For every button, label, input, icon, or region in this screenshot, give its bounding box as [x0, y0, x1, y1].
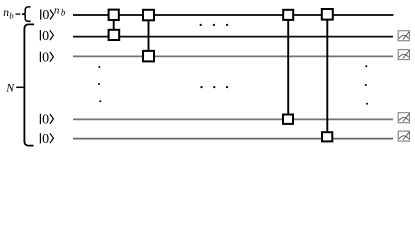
svg-text:N: N	[5, 81, 15, 95]
svg-text:n: n	[3, 7, 9, 19]
svg-text:0: 0	[42, 113, 49, 128]
svg-text:n: n	[54, 5, 60, 17]
svg-text:0: 0	[42, 29, 49, 44]
svg-text:0: 0	[42, 132, 49, 147]
svg-text:b: b	[9, 11, 13, 21]
svg-text:b: b	[61, 7, 66, 17]
svg-text:0: 0	[42, 8, 49, 23]
svg-text:0: 0	[42, 51, 49, 66]
